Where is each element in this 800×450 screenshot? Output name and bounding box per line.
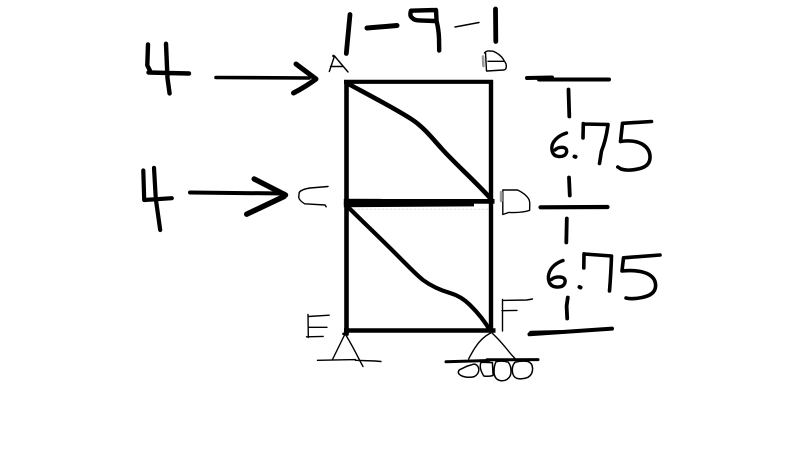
roller support at F ground line bbox=[446, 360, 538, 362]
node label C bbox=[299, 187, 328, 207]
right dimension bottom tick bbox=[530, 329, 613, 335]
node label B gray accent bbox=[482, 57, 485, 67]
member BF (right column) bbox=[489, 80, 493, 332]
pin support at E apex blob bbox=[344, 332, 348, 335]
member AB (top chord) bbox=[344, 80, 493, 84]
node label E bbox=[307, 314, 330, 337]
pin support at E triangle bbox=[333, 335, 364, 367]
node label D gray accent bbox=[500, 192, 503, 200]
roller rock 1 bbox=[458, 364, 478, 377]
top dimension dash bbox=[367, 26, 397, 29]
pin support at E ground line bbox=[318, 360, 382, 362]
roller rock 2 bbox=[480, 362, 493, 376]
dimension label 6.75 (lower) 6 bbox=[548, 261, 565, 288]
dimension label 6.75 (lower) 7 bbox=[584, 254, 612, 291]
dimension label 6.75 (upper) 6 bbox=[552, 133, 567, 157]
roller rock 4 bbox=[512, 361, 532, 379]
load arrow 1 shaft bbox=[216, 76, 309, 80]
roller support at F triangle bbox=[469, 333, 516, 359]
top dimension right tick bbox=[493, 9, 498, 42]
roller rock 3 bbox=[494, 361, 511, 381]
right dimension top tick bbox=[527, 78, 609, 80]
load arrow 2 shaft bbox=[190, 193, 284, 194]
member CD (middle beam) bbox=[344, 199, 495, 204]
load arrow 1 head bbox=[294, 64, 317, 93]
right dimension dash 2 bbox=[567, 178, 572, 196]
member CD second stroke bbox=[344, 202, 474, 207]
right dimension dash 4 bbox=[567, 298, 568, 319]
right dimension dash 1 bbox=[567, 90, 572, 117]
load label 4 (lower) bbox=[143, 168, 172, 230]
top dimension left tick bbox=[346, 15, 350, 54]
dimension label 6.75 (upper) dot bbox=[575, 155, 576, 159]
dimension label 6.75 (upper) 5 bbox=[618, 122, 652, 171]
top dimension thin dash bbox=[455, 23, 479, 28]
node label D bbox=[503, 190, 530, 215]
dimension label 6.75 (upper) 7 bbox=[583, 124, 608, 164]
load arrow 2 head bbox=[247, 179, 286, 214]
node label F bbox=[502, 299, 532, 331]
node label A bbox=[329, 55, 348, 72]
top dimension label 9 bbox=[410, 10, 439, 51]
diagonal AD bbox=[350, 85, 492, 200]
member AE (left column) bbox=[344, 80, 349, 335]
member EF (bottom chord) bbox=[344, 328, 496, 332]
diagonal CF bbox=[348, 207, 490, 331]
load label 4 (upper) bbox=[147, 44, 189, 94]
dimension label 6.75 (lower) dot bbox=[580, 285, 581, 290]
node label B bbox=[485, 51, 507, 71]
right dimension dash 3 bbox=[564, 219, 568, 243]
faint guide line under beam bbox=[350, 208, 490, 210]
right dimension middle tick bbox=[541, 205, 608, 210]
dimension label 6.75 (lower) 5 bbox=[622, 255, 660, 299]
